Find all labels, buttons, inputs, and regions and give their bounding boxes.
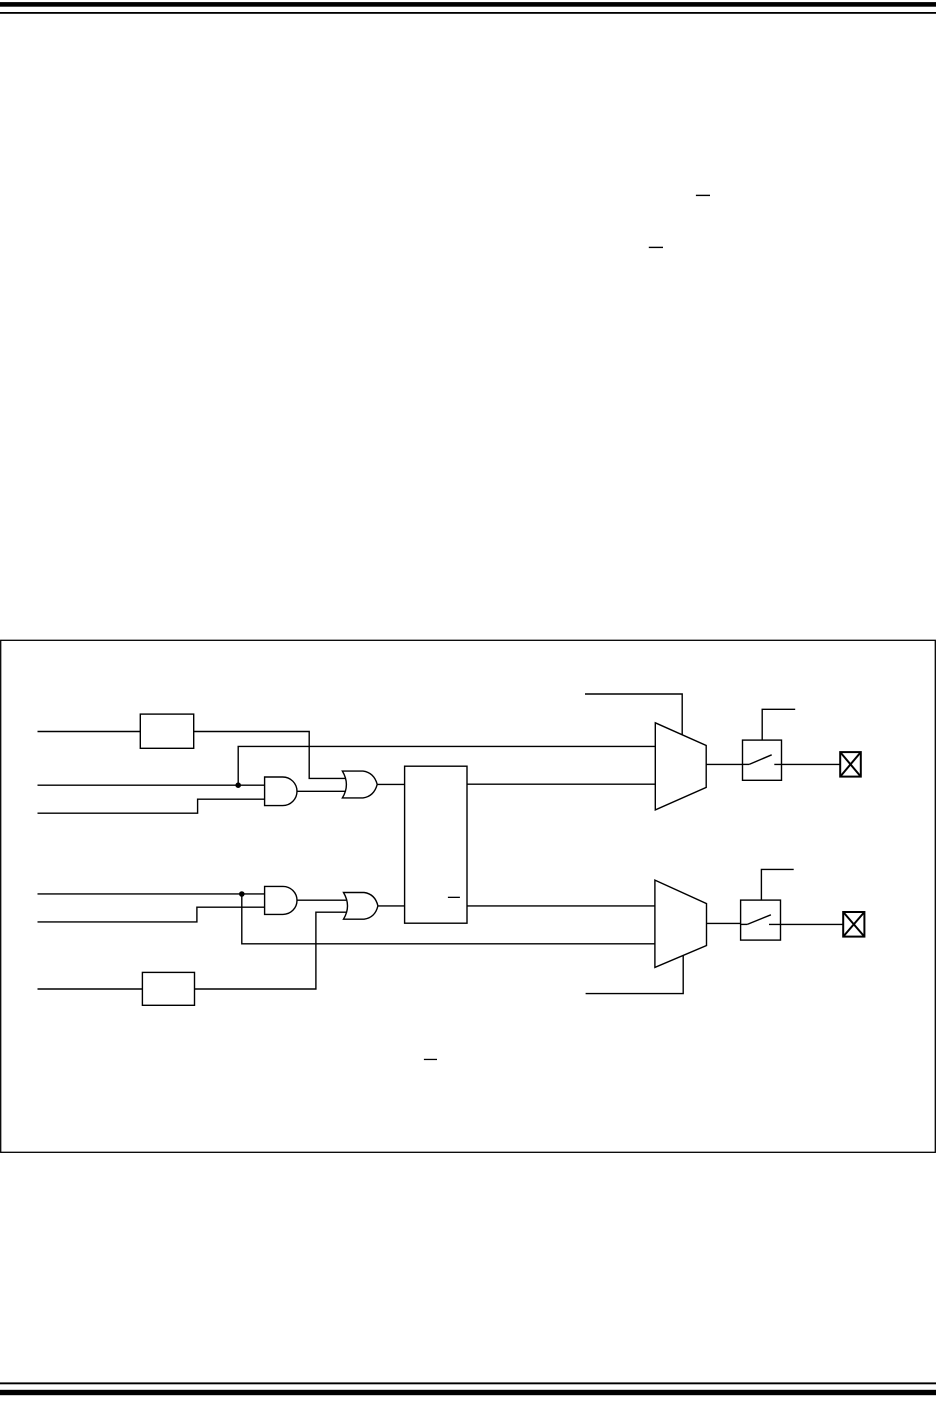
switch SW1 box	[743, 740, 782, 780]
header thick rule	[0, 2, 936, 7]
overline of label below U1	[424, 1059, 437, 1060]
switch SW2 contact stub	[741, 923, 748, 925]
wire switch SW2 output to pad P2	[769, 923, 843, 925]
header thin rule	[0, 12, 936, 14]
wire input 4 to AND2 upper input	[38, 893, 265, 895]
wire input 5 to AND2 lower input (step)	[38, 907, 265, 922]
switch SW2 lever	[747, 915, 771, 925]
wire U1 Q-bar output to mux M2 upper input	[467, 905, 655, 907]
node junction J2	[239, 891, 245, 897]
mux M1	[655, 723, 706, 810]
box B2 (delay block)	[142, 972, 194, 1005]
overline of Q-bar label inside U1	[448, 897, 460, 898]
wire OR1 output to flip-flop U1	[377, 783, 404, 785]
wire control stub of switch SW2	[761, 869, 793, 900]
and-gate AND2	[265, 886, 297, 914]
wire AND1 output to OR1 lower input	[297, 790, 345, 792]
wire input 3 to AND1 lower input (step)	[38, 799, 265, 813]
pad P1	[840, 752, 861, 777]
or-gate OR2	[344, 893, 378, 920]
wire switch SW1 output to pad P1	[774, 763, 840, 765]
pad P2	[843, 912, 864, 937]
wire box B2 output riser to OR2 lower input	[195, 912, 347, 989]
wire select line of mux M1	[585, 694, 682, 735]
or-gate OR1	[342, 771, 377, 798]
wire input 6 to box B2	[38, 988, 143, 990]
overline mark 2 (body text)	[649, 247, 663, 248]
box B1 (delay block)	[140, 714, 193, 748]
wire mux M1 output to switch SW1	[706, 763, 742, 765]
wire input 1 to box B1	[38, 731, 141, 733]
switch SW2 box	[741, 900, 781, 940]
switch SW1 contact stub	[743, 763, 750, 765]
figure frame	[1, 640, 936, 1152]
wire select line of mux M2	[586, 955, 684, 993]
node junction J1	[235, 782, 241, 788]
wire input 2 to AND1 upper input	[38, 784, 265, 786]
wire OR2 output to flip-flop U1	[378, 905, 405, 907]
wire mux M2 output to switch SW2	[707, 922, 741, 924]
flip-flop U1	[405, 766, 467, 923]
wire control stub of switch SW1	[762, 709, 795, 740]
wire AND2 output to OR2 upper input	[297, 899, 346, 901]
footer thin rule	[0, 1382, 936, 1384]
and-gate AND1	[265, 777, 297, 806]
switch SW1 lever	[749, 755, 772, 765]
wire junction J1 riser to mux M1 upper input	[238, 746, 655, 785]
wire box B1 output to OR1 upper input (right then down)	[194, 732, 346, 779]
overline mark 1 (body text)	[696, 195, 710, 196]
wire U1 Q output to mux M1 lower input	[467, 783, 655, 785]
wire junction J2 drop to mux M2 lower input	[242, 894, 655, 944]
footer thick rule	[0, 1390, 936, 1395]
mux M2	[655, 880, 707, 967]
